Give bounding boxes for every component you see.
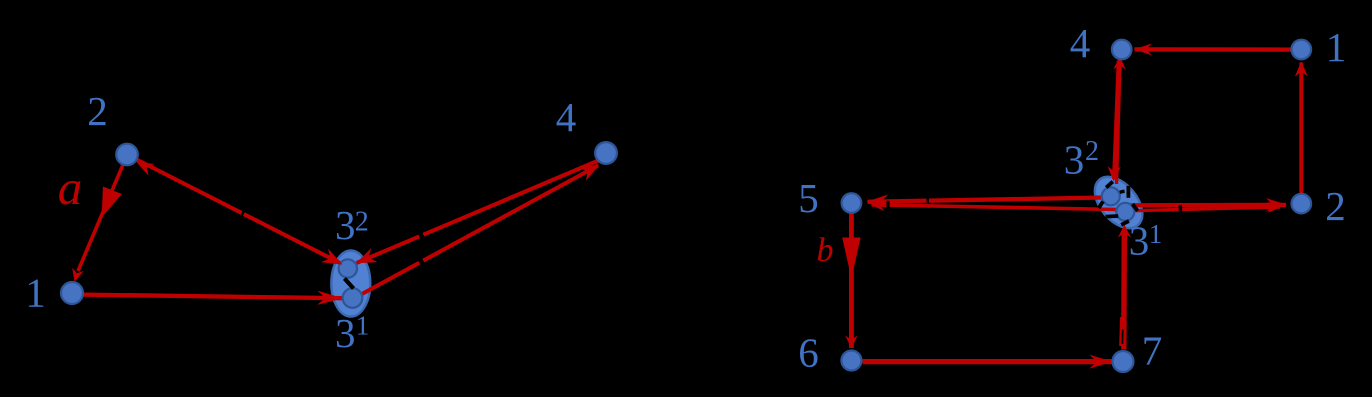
edge node 1 to node 4 (right graph) bbox=[1135, 47, 1292, 51]
edge 3^1 to node 4 bbox=[361, 166, 598, 295]
tick gap on 4-3 edge bbox=[419, 230, 424, 241]
edge cluster 3^1 to node 2 (lower strand) bbox=[1130, 207, 1280, 211]
node 2 bbox=[116, 144, 138, 166]
edge cluster to node 7 (second strand) bbox=[1119, 317, 1123, 346]
edge cluster to node 4 (up arrow strand) bbox=[1117, 61, 1121, 185]
node 3^1 right bbox=[1116, 203, 1134, 221]
node 3^2 right bbox=[1102, 187, 1120, 205]
tick gap on lower 3-5 strand bbox=[886, 201, 889, 210]
edge b mid arrowhead bbox=[842, 238, 860, 279]
node 1 bbox=[61, 282, 83, 304]
svg-text:b: b bbox=[817, 232, 834, 269]
node 4 right bbox=[1112, 40, 1132, 60]
svg-text:1: 1 bbox=[25, 270, 46, 316]
svg-text:4: 4 bbox=[1070, 20, 1091, 66]
edge cluster 3^2 to node 2 (upper strand) bbox=[1127, 203, 1286, 208]
svg-text:7: 7 bbox=[1142, 328, 1163, 374]
node 6 right bbox=[841, 351, 861, 371]
edge node 4 to 3^2 bbox=[357, 161, 599, 264]
svg-text:4: 4 bbox=[556, 94, 577, 140]
edge node 4 to cluster (down arrow strand) bbox=[1114, 61, 1119, 180]
svg-text:1: 1 bbox=[356, 311, 370, 341]
svg-text:3: 3 bbox=[1064, 137, 1085, 183]
node 2 right bbox=[1292, 194, 1312, 214]
edge between node 2 and 3^2 (arrowheads both ends) bbox=[137, 160, 344, 265]
node 3^2 left bbox=[339, 259, 357, 277]
svg-text:a: a bbox=[58, 160, 83, 215]
node 3^1 left bbox=[343, 288, 363, 308]
edge node 6 to node 7 bbox=[863, 359, 1113, 364]
right cluster ellipse around 3^1 3^2 bbox=[1085, 168, 1151, 237]
svg-text:6: 6 bbox=[798, 330, 819, 376]
svg-text:3: 3 bbox=[335, 310, 356, 356]
node 5 right bbox=[842, 193, 862, 213]
edge node 7 to cluster (up arrow) bbox=[1121, 231, 1127, 350]
svg-text:1: 1 bbox=[1326, 24, 1347, 70]
arrowhead tip overlay 4 to 3^2 bbox=[356, 248, 377, 263]
tick gap on 3-5 upper strand bbox=[926, 195, 929, 206]
node 1 right bbox=[1292, 40, 1312, 60]
edge a mid arrowhead bbox=[102, 187, 122, 218]
svg-text:2: 2 bbox=[87, 88, 108, 134]
edge cluster 3^2 to node 5 (upper strand) bbox=[868, 198, 1105, 202]
svg-text:2: 2 bbox=[1325, 183, 1346, 229]
svg-text:5: 5 bbox=[798, 175, 819, 221]
svg-text:2: 2 bbox=[1085, 136, 1099, 167]
arrowhead tip overlay 2 to 3^2 bbox=[321, 249, 342, 265]
edge a end arrowhead at node 1 bbox=[72, 268, 84, 282]
tick gap on 2-3 edge bbox=[240, 209, 246, 220]
edge b end arrowhead at node 6 bbox=[845, 336, 857, 349]
arrowhead tip overlay 1 to 3^1 bbox=[317, 291, 342, 305]
svg-text:3: 3 bbox=[335, 202, 356, 248]
black slot between strands near node 7 bbox=[1121, 330, 1123, 345]
black dash between 3^2 and 3^1 left bbox=[345, 279, 354, 289]
svg-text:2: 2 bbox=[355, 207, 369, 238]
black dash marks on right cluster bbox=[1106, 182, 1113, 188]
svg-text:3: 3 bbox=[1129, 218, 1150, 264]
edge b from node 5 to node 6 bbox=[849, 213, 854, 348]
left cluster ellipse around 3^1 3^2 bbox=[331, 251, 370, 317]
edge node 2 to node 1 (right graph) bbox=[1299, 63, 1303, 194]
tick gap on lower 3-2 strand bbox=[1179, 205, 1183, 214]
edge cluster 3^1 to node 5 (lower strand) bbox=[872, 205, 1118, 210]
node 7 right bbox=[1113, 351, 1134, 372]
edge node 1 to 3^1 bbox=[83, 295, 343, 299]
node 4 bbox=[595, 142, 617, 164]
tick gap on 3-4 edge bbox=[418, 257, 424, 267]
svg-text:1: 1 bbox=[1149, 219, 1163, 249]
edge a from node 2 to node 1 bbox=[78, 165, 123, 271]
